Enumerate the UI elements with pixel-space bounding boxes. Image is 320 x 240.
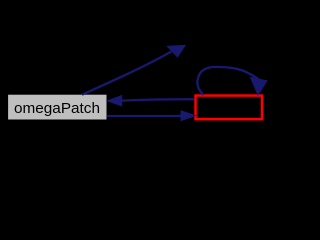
arrowhead E3 — [181, 111, 195, 121]
edge E3 omegaPatch -> red (lower horizontal) — [107, 115, 181, 117]
edge E4 self-loop on red node — [197, 67, 258, 95]
svg-text:omegaPatch: omegaPatch — [14, 101, 100, 117]
arrowhead E1 — [167, 45, 185, 57]
node (red, truncated) — [196, 96, 262, 120]
node omegaPatch — [8, 94, 107, 120]
edge E2 red -> omegaPatch (upper horizontal) — [122, 99, 195, 100]
arrowhead E4 — [251, 77, 268, 95]
edge E1 omegaPatch -> external (diagonal) — [82, 52, 172, 95]
arrowhead E2 — [107, 96, 122, 106]
